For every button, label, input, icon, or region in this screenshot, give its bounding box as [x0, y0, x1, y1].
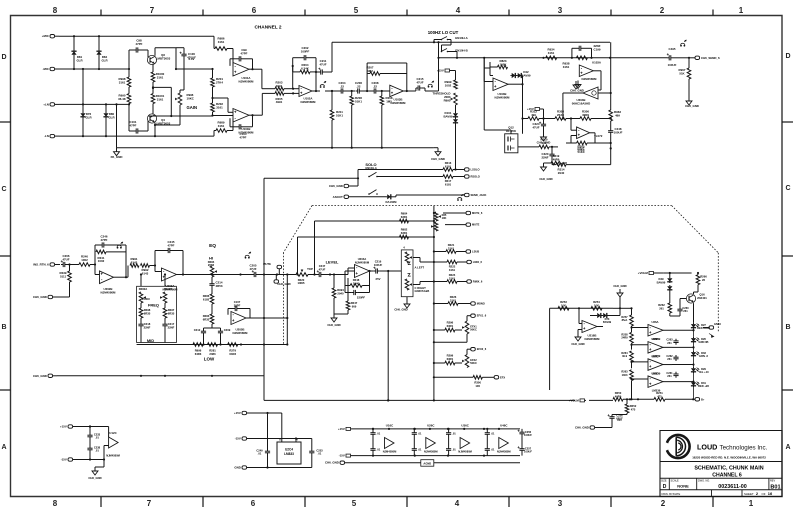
mid band box [137, 286, 177, 342]
wire cmp out [672, 329, 695, 331]
svg-text:CH6_GND: CH6_GND [575, 426, 589, 430]
wire u205b out [246, 317, 288, 319]
potentiometer PAN A [403, 246, 412, 264]
potentiometer mute B [431, 222, 438, 231]
resistor R938 [563, 56, 588, 69]
capacitor C217 [162, 318, 174, 343]
resistor R204 feedback [292, 58, 318, 92]
wire box gnd [307, 467, 312, 469]
wire aux wiring [95, 446, 109, 461]
svg-text:NONE: NONE [677, 483, 689, 488]
svg-text:NJM4580M: NJM4580M [495, 95, 511, 99]
svg-text:CHANNEL 2: CHANNEL 2 [254, 25, 281, 31]
ground PA_GND [111, 148, 123, 160]
wire pan feed [380, 270, 402, 272]
label pan right [408, 274, 430, 294]
power +15V comp [527, 107, 545, 120]
fet pair Q12 [505, 126, 518, 153]
wire pan out R [413, 282, 434, 285]
wire comp mid row [521, 117, 528, 119]
capacitor C216 [373, 260, 382, 282]
svg-text:+15V: +15V [527, 107, 534, 111]
comparator U26D LM339 [648, 371, 672, 392]
capacitor C210 feedback [228, 300, 250, 318]
svg-text:CH6_GND: CH6_GND [33, 295, 47, 299]
svg-text:22NF: 22NF [144, 325, 151, 329]
resistor R241 feedback [95, 250, 126, 263]
svg-text:NJM4580M: NJM4580M [355, 260, 370, 264]
svg-text:261: 261 [659, 306, 664, 310]
switch SW10-A [433, 36, 469, 43]
capacitor C324 [532, 119, 546, 130]
resistor R266 [696, 273, 707, 289]
connector MUTE tap [263, 262, 281, 275]
resistor R307 [566, 141, 612, 154]
capacitor C253 right [262, 437, 323, 467]
resistor R219 gnd [544, 154, 568, 165]
svg-text:EFX2_6: EFX2_6 [477, 347, 487, 351]
svg-text:4991: 4991 [276, 100, 283, 104]
svg-text:.01: .01 [418, 448, 422, 452]
capacitor U36C bot [446, 441, 456, 456]
dashed console outline main [312, 205, 672, 207]
wire volm top [664, 272, 700, 274]
svg-text:499: 499 [615, 113, 620, 117]
ground vca [575, 81, 581, 89]
svg-text:LMIX_6: LMIX_6 [473, 260, 483, 264]
svg-text:+VOLM: +VOLM [638, 271, 649, 275]
svg-text:MONO: MONO [477, 302, 485, 306]
svg-text:U103A: U103A [592, 61, 602, 65]
connector solo gnd [329, 184, 358, 188]
wire into u203a [150, 264, 162, 271]
svg-text:U26C: U26C [651, 354, 658, 358]
svg-text:5: 5 [352, 499, 357, 508]
svg-text:CH6_GND: CH6_GND [570, 89, 584, 93]
svg-text:B01: B01 [770, 484, 780, 490]
svg-text:Technologies Inc.: Technologies Inc. [720, 444, 768, 451]
drawing title [694, 465, 763, 478]
dashed console right vertical [717, 253, 719, 332]
svg-text:CH6_GND: CH6_GND [685, 104, 699, 108]
capacitor C98 [134, 39, 143, 53]
capacitor C249 left [256, 412, 270, 469]
wire lower rail [117, 147, 434, 149]
wire into U102A [284, 88, 299, 95]
connector pwr in2 [235, 437, 262, 441]
svg-text:MUTE: MUTE [472, 223, 480, 227]
svg-text:6191: 6191 [445, 182, 452, 186]
connector +VOLM rail [569, 398, 586, 402]
svg-text:REV: REV [770, 480, 775, 483]
svg-text:6.34K: 6.34K [301, 66, 310, 70]
wire u203a out [177, 274, 197, 276]
capacitor C209 [218, 328, 231, 345]
connector bus L [466, 250, 479, 254]
svg-text:100UF: 100UF [524, 450, 532, 454]
wire mic+ bus [59, 35, 214, 37]
resistor R312 [528, 110, 539, 121]
svg-text:+VOLM: +VOLM [569, 398, 580, 402]
svg-text:2N4401: 2N4401 [697, 296, 707, 300]
connector EFX2 top [467, 347, 487, 354]
wire solo row2 [377, 176, 443, 178]
svg-text:C: C [1, 186, 6, 193]
potentiometer THRESHOLD R995 [433, 92, 458, 106]
svg-text:4: 4 [455, 499, 460, 508]
svg-text:NJM4580M: NJM4580M [301, 100, 317, 104]
svg-text:16220 WOOD-RED RD. N.E. WOODIN: 16220 WOOD-RED RD. N.E. WOODINVILLE, WA … [692, 456, 766, 460]
LOUD logo [664, 435, 690, 458]
buffer U26C [424, 424, 438, 454]
wire rail400 [264, 399, 575, 401]
resistor R986 [214, 37, 233, 66]
svg-text:47UF: 47UF [62, 257, 69, 261]
potentiometer GAIN R996 [175, 93, 197, 110]
connector CH6_SEND [689, 56, 720, 60]
svg-text:MUTE_6: MUTE_6 [472, 211, 483, 215]
svg-text:U26D: U26D [651, 371, 658, 375]
svg-text:24R9: 24R9 [621, 335, 628, 339]
wire mid row 3 [566, 117, 580, 119]
svg-text:RED +28: RED +28 [698, 384, 709, 388]
svg-text:.01: .01 [318, 452, 322, 456]
svg-text:47PF: 47PF [168, 243, 175, 247]
svg-text:-15V: -15V [61, 458, 67, 462]
svg-text:220PF: 220PF [357, 296, 365, 300]
svg-text:.22: .22 [373, 84, 377, 88]
label HI [208, 256, 215, 268]
resistor R247b [334, 278, 358, 314]
op-amp U103B [390, 85, 406, 105]
resistor R221 [434, 243, 466, 253]
fader pot R220 [296, 267, 313, 285]
svg-text:47UF: 47UF [319, 62, 326, 66]
svg-text:5: 5 [354, 6, 359, 15]
svg-text:8: 8 [53, 6, 58, 15]
svg-text:63R1: 63R1 [447, 357, 454, 361]
svg-text:3: 3 [558, 6, 563, 15]
transistor Q16 [686, 289, 707, 303]
sheet label CHANNEL 2 [254, 25, 281, 31]
svg-text:FREQ: FREQ [148, 303, 159, 308]
svg-text:2940: 2940 [353, 281, 360, 285]
svg-text:100UF: 100UF [614, 130, 623, 134]
potentiometer PAN C [405, 279, 412, 290]
svg-text:RED HIGH: RED HIGH [697, 326, 710, 330]
op-amp U202B [100, 271, 117, 294]
resistor R998 [119, 69, 131, 87]
svg-text:63R1: 63R1 [401, 231, 408, 235]
capacitor C245 feedback [155, 240, 184, 276]
svg-text:CH6_GND: CH6_GND [431, 157, 445, 161]
svg-text:C: C [785, 185, 790, 192]
connector GN16 meter [703, 322, 721, 329]
wire meter input [550, 307, 613, 309]
resistor R283 [203, 304, 214, 328]
switch solo B [368, 190, 378, 195]
svg-text:3161: 3161 [449, 268, 456, 272]
svg-text:CH6_GND: CH6_GND [327, 323, 340, 327]
wire comp fb down [522, 84, 524, 134]
svg-text:-15V: -15V [339, 454, 345, 458]
svg-text:7: 7 [150, 6, 155, 15]
diode D73b [602, 308, 620, 318]
svg-text:261: 261 [667, 357, 672, 361]
resistor R207 feedback [366, 63, 408, 92]
capacitor C101 [130, 120, 140, 134]
wire meter row [589, 399, 613, 401]
capacitor C263 [666, 338, 678, 345]
svg-text:NJM4580M: NJM4580M [585, 337, 601, 341]
svg-text:100PF: 100PF [301, 49, 310, 53]
svg-text:100UF: 100UF [524, 433, 532, 437]
wire eq rail2 [57, 375, 264, 377]
svg-text:0023611-00: 0023611-00 [718, 484, 746, 490]
svg-text:CHANNEL 6: CHANNEL 6 [712, 473, 742, 479]
potentiometer mid A [139, 292, 146, 303]
svg-text:06HC16A5HD: 06HC16A5HD [572, 101, 590, 105]
resistor R206 shunt [350, 91, 362, 148]
svg-text:261: 261 [683, 309, 688, 313]
svg-text:47PF: 47PF [240, 135, 247, 139]
op-amp U204A [355, 257, 370, 278]
svg-text:GN10H-A: GN10H-A [455, 36, 469, 40]
resistor R297 [163, 303, 175, 318]
svg-text:1M2: 1M2 [367, 69, 373, 73]
resistor R253 [558, 300, 569, 310]
svg-text:6143: 6143 [142, 271, 149, 275]
wire vca out right [598, 92, 612, 94]
LED D31 [691, 381, 709, 399]
svg-text:261: 261 [667, 341, 672, 345]
vca U304B [572, 87, 598, 105]
connector bus LMIX [467, 260, 483, 264]
svg-text:1303: 1303 [622, 373, 628, 377]
svg-text:CH6_GND: CH6_GND [88, 476, 101, 480]
svg-text:U26B: U26B [651, 337, 658, 341]
wire to send conn [673, 57, 690, 59]
svg-text:47PF: 47PF [241, 51, 248, 55]
svg-text:D: D [663, 484, 667, 490]
svg-text:DWN. BY/DATE: DWN. BY/DATE [662, 492, 681, 496]
jumper JP201 [320, 81, 327, 88]
svg-text:6191: 6191 [445, 164, 452, 168]
wire u102a out [312, 90, 320, 92]
svg-text:6: 6 [252, 6, 257, 15]
svg-text:CH6_GND: CH6_GND [537, 141, 551, 145]
wire send bus [439, 57, 668, 59]
svg-text:+15V: +15V [60, 425, 67, 429]
svg-text:B: B [785, 324, 790, 331]
svg-text:LMBT3653: LMBT3653 [156, 56, 171, 60]
resistor R1000 [151, 65, 164, 83]
wire u304a wiring [571, 119, 577, 144]
svg-text:3161: 3161 [119, 80, 126, 84]
svg-text:10K: 10K [442, 216, 447, 220]
svg-text:LSUB: LSUB [472, 250, 479, 254]
svg-text:INS_RTN_6: INS_RTN_6 [33, 263, 49, 267]
svg-text:25V: 25V [376, 277, 381, 281]
svg-text:C199: C199 [594, 47, 601, 51]
connector CH6_GND pwr [325, 461, 421, 465]
capacitor C202 feedback [293, 46, 316, 89]
wire u204a out [370, 270, 374, 272]
connector aux -15V [61, 458, 95, 462]
svg-text:GLR: GLR [108, 115, 115, 119]
svg-text:CH6_GND: CH6_GND [571, 342, 584, 346]
svg-text:GRN -6: GRN -6 [699, 354, 708, 358]
capacitor C99 feedback [230, 48, 253, 69]
resistor R299 [434, 354, 462, 365]
diode D49b [667, 285, 672, 302]
resistor R967 [679, 58, 691, 79]
svg-text:CH6_GND: CH6_GND [329, 184, 343, 188]
wire meter input2 [613, 307, 632, 309]
resistor R281 [208, 343, 218, 356]
diode D80 [103, 104, 115, 136]
pan pot box [401, 250, 413, 297]
svg-text:6143: 6143 [131, 260, 138, 264]
ground pan [394, 297, 410, 312]
svg-text:D: D [1, 54, 6, 61]
diode D102 [453, 118, 458, 171]
wire eq vert 264 [263, 273, 265, 344]
resistor R263 ladder [621, 370, 633, 390]
dashed console diagonal right [672, 206, 719, 253]
resistor R257 ladder [621, 315, 633, 332]
connector send jack [465, 193, 487, 197]
wire pan vertical [387, 271, 389, 402]
wire row377 [434, 376, 473, 378]
svg-text:NJM4580M: NJM4580M [458, 450, 472, 454]
svg-text:.01: .01 [377, 448, 381, 452]
svg-text:R995: R995 [444, 98, 451, 102]
svg-text:4991: 4991 [276, 84, 283, 88]
svg-text:3161: 3161 [218, 40, 225, 44]
resistor R310 [539, 138, 549, 149]
resistor R934 [546, 48, 557, 60]
capacitor C257 right [517, 440, 532, 456]
wire eq mainline [196, 273, 251, 275]
svg-text:R282B: R282B [164, 287, 173, 291]
label EQ [209, 243, 216, 249]
svg-text:.22: .22 [340, 84, 344, 88]
svg-text:DWG. NO.: DWG. NO. [698, 480, 710, 483]
svg-text:100: 100 [475, 384, 480, 388]
svg-text:.01: .01 [452, 448, 456, 452]
power +VOLM top [638, 271, 664, 275]
svg-text:-MIC: -MIC [43, 67, 50, 71]
wire eq rail1 [137, 343, 288, 345]
capacitor C199 [572, 44, 601, 58]
svg-text:39PF: 39PF [234, 303, 241, 307]
svg-text:.01: .01 [491, 432, 495, 436]
LED D29 [691, 367, 709, 381]
svg-text:.01: .01 [452, 432, 456, 436]
connector gnd meter [575, 421, 612, 430]
wire pan top feeds [0, 0, 1, 1]
comparator U26C LM339 [648, 354, 672, 375]
connector mute mid [445, 223, 480, 227]
svg-text:16V: 16V [617, 418, 622, 422]
svg-text:SIZE: SIZE [661, 480, 667, 483]
svg-text:GLR: GLR [101, 58, 108, 62]
svg-text:499: 499 [531, 113, 536, 117]
potentiometer mute A [434, 212, 447, 221]
svg-text:B: B [1, 324, 6, 331]
svg-text:U46C: U46C [500, 424, 508, 428]
resistor R239 shunt [60, 265, 72, 298]
svg-text:U26C: U26C [427, 424, 435, 428]
capacitor U46C top [485, 428, 495, 441]
wire u103a out [593, 71, 601, 90]
title block box [660, 431, 782, 497]
connector INS_RTN_6 [33, 263, 60, 267]
jumper JP4 [457, 194, 464, 201]
wire main mid [325, 90, 340, 92]
capacitor C206in [61, 254, 70, 267]
wire meter row3 [665, 398, 694, 400]
svg-text:47PF: 47PF [130, 123, 137, 127]
transistor Q3 [147, 53, 170, 65]
svg-text:GAIN: GAIN [187, 105, 198, 110]
resistor R262 [658, 302, 680, 316]
wire mute bus [433, 206, 435, 401]
capacitor C218 [138, 318, 150, 343]
input connector MIC- [43, 67, 59, 71]
wire u304a out [590, 133, 595, 143]
svg-text:U12C: U12C [109, 431, 117, 435]
resistor R226 [434, 295, 471, 305]
svg-text:GN207A&B: GN207A&B [415, 289, 430, 293]
capacitor C260 [677, 299, 689, 314]
svg-text:SCALE: SCALE [671, 480, 680, 483]
capacitor C233 [87, 425, 100, 443]
svg-text:GLR: GLR [76, 58, 83, 62]
resistor R963 [609, 42, 621, 121]
svg-text:NJM4580M: NJM4580M [101, 290, 117, 294]
wire fet top [484, 58, 511, 134]
ground ladder top [613, 284, 626, 308]
wire cmp out [672, 346, 695, 348]
svg-text:BAV99: BAV99 [443, 114, 452, 118]
op-amp U205B [231, 312, 248, 335]
capacitor C211 [315, 42, 332, 74]
resistor R205 [275, 92, 284, 105]
svg-text:261: 261 [667, 374, 672, 378]
connector solo bus1 [453, 168, 480, 172]
connector bus RMIX [467, 280, 483, 284]
svg-text:NJM4580M: NJM4580M [233, 331, 249, 335]
svg-text:U2C4: U2C4 [285, 448, 293, 452]
label R282A [139, 287, 148, 291]
wire q4 base rail [148, 115, 213, 117]
resistor R279 [228, 343, 238, 356]
label LOW [204, 357, 215, 362]
svg-text:49.9: 49.9 [622, 354, 628, 358]
svg-text:1002: 1002 [98, 259, 105, 263]
svg-text:26: 26 [702, 278, 706, 282]
resistor R258 ladder [621, 332, 633, 349]
ground aux [88, 460, 104, 481]
wire u103b out [403, 90, 416, 92]
resistor R300 [473, 376, 482, 388]
svg-text:LOUD: LOUD [697, 443, 717, 452]
capacitor C208 [372, 81, 379, 94]
wire switch link [442, 40, 452, 52]
svg-text:3161: 3161 [157, 75, 164, 79]
